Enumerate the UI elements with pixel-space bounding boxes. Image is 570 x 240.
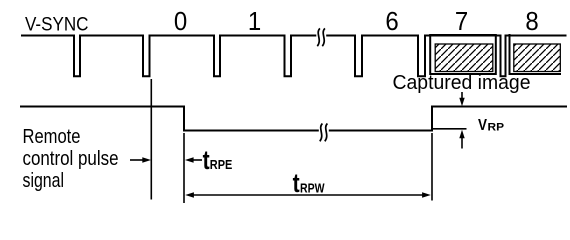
break symbol bottom line [320, 124, 328, 142]
svg-text:signal: signal [23, 169, 65, 192]
captured frame 8 outer box (left+bottom, clipped right) [510, 34, 562, 74]
svg-text:0: 0 [174, 7, 187, 36]
svg-text:t: t [293, 169, 300, 199]
svg-text:RP: RP [488, 121, 505, 133]
break symbol top line [317, 28, 325, 46]
svg-text:V: V [478, 117, 487, 134]
svg-text:Remote: Remote [23, 125, 81, 148]
svg-text:RPE: RPE [210, 157, 233, 172]
svg-text:8: 8 [525, 7, 538, 36]
arrow right toward pulse line [130, 159, 143, 161]
svg-text:V-SYNC: V-SYNC [25, 13, 89, 35]
arrow left at falling edge [193, 159, 202, 161]
svg-text:RPW: RPW [300, 180, 325, 195]
extension line falling edge [183, 133, 185, 203]
wire remote control pulse waveform [20, 107, 567, 131]
arrow up to low level [461, 138, 463, 149]
low level reference stub [433, 128, 467, 130]
svg-text:t: t [203, 146, 210, 176]
captured frame 8 hatched rect [514, 44, 561, 72]
captured frame 7 outer box [430, 35, 496, 74]
arrow down from Captured image to high level [461, 92, 463, 99]
wire V-SYNC waveform with pulses [21, 36, 567, 77]
captured frame 7 hatched rect [435, 44, 493, 72]
svg-text:control pulse: control pulse [23, 147, 119, 170]
extension line rising edge [431, 133, 433, 201]
svg-text:1: 1 [248, 7, 261, 36]
svg-text:7: 7 [455, 7, 468, 36]
extension line from V-SYNC pulse [150, 79, 152, 200]
dimension line tRPW [193, 194, 423, 196]
svg-text:6: 6 [385, 7, 398, 36]
svg-text:Captured image: Captured image [393, 71, 531, 94]
